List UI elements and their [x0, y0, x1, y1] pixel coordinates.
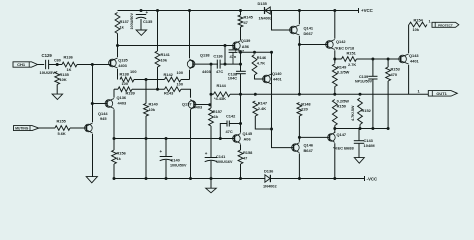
- resistor R136: [62, 62, 77, 67]
- output connector PROTECT: [432, 22, 459, 27]
- svg-text:C136: C136: [213, 54, 223, 59]
- capacitor C137: [229, 49, 238, 51]
- wire bottom rail right: [269, 178, 364, 180]
- wire Q137 base: [194, 104, 211, 106]
- svg-text:1N4002: 1N4002: [259, 16, 273, 21]
- wire R148 bottom: [298, 116, 300, 137]
- node out rail 299: [298, 93, 301, 96]
- svg-text:C135: C135: [143, 19, 153, 24]
- wire Q143 emitter down: [408, 65, 410, 95]
- wire input to C129: [38, 64, 45, 66]
- resistor R147: [253, 101, 258, 116]
- wire C141 bottom: [210, 161, 212, 188]
- node out rail fb: [210, 93, 213, 96]
- wire R143 to Q137 emitter: [181, 89, 191, 98]
- node Q147 base R148: [298, 136, 301, 139]
- wire R146 bottom: [255, 75, 265, 79]
- transistor Q147: [329, 134, 331, 141]
- wire to Q136 base: [92, 103, 107, 105]
- resistor R156: [112, 150, 117, 164]
- wire output rail: [211, 93, 214, 95]
- svg-text:R152: R152: [362, 108, 372, 113]
- wire Q137 collector down: [190, 110, 192, 179]
- svg-text:R136: R136: [64, 54, 74, 59]
- svg-text:5.6K: 5.6K: [58, 131, 66, 136]
- resistor R138: [120, 77, 134, 82]
- wire output rail right: [230, 93, 428, 95]
- svg-text:C129: C129: [42, 53, 53, 58]
- svg-text:PROTECT: PROTECT: [438, 23, 453, 27]
- wire Q147 base: [299, 136, 329, 138]
- transistor Q135: [110, 60, 112, 67]
- svg-text:Q135: Q135: [118, 58, 128, 63]
- capacitor C139: [368, 75, 377, 77]
- node mid rail R152: [359, 127, 362, 130]
- node top rail Q142: [333, 9, 336, 12]
- wire C142 left: [220, 124, 227, 139]
- svg-text:10U/25V: 10U/25V: [40, 70, 56, 75]
- resistor R158: [238, 150, 243, 164]
- svg-text:47: 47: [244, 20, 248, 25]
- wire R142 to Q138 collector: [181, 79, 190, 81]
- wire R156 top: [113, 139, 115, 151]
- node fb rail 166: [165, 137, 168, 140]
- node 240 rail: [239, 93, 242, 96]
- wire Q142 collector: [334, 11, 336, 39]
- svg-text:R154: R154: [414, 18, 424, 23]
- wire R151 left: [335, 58, 342, 60]
- svg-text:R144: R144: [217, 83, 227, 88]
- wire R155 to Q144 base: [70, 127, 87, 129]
- resistor R142: [165, 77, 182, 82]
- node fb rail C142: [219, 137, 222, 140]
- svg-text:4403: 4403: [118, 63, 127, 68]
- wire mid rail: [335, 128, 388, 130]
- diode D135: [265, 7, 270, 14]
- transistor Q141: [291, 27, 293, 34]
- node R151 tee: [333, 58, 336, 61]
- resistor R137: [115, 13, 120, 34]
- transistor Q136: [106, 100, 108, 107]
- svg-text:4403: 4403: [194, 104, 203, 109]
- node bot rail C140: [165, 177, 168, 180]
- svg-text:Q145: Q145: [243, 131, 253, 136]
- svg-text:OUT1: OUT1: [436, 91, 447, 96]
- node C136 left: [210, 63, 213, 66]
- svg-text:10k: 10k: [413, 27, 420, 32]
- resistor R154: [409, 22, 427, 27]
- node R146 top: [253, 51, 256, 54]
- wire bias row: [241, 51, 272, 53]
- power +VCC: [358, 8, 360, 13]
- wire Q138 collector down: [189, 70, 191, 80]
- svg-text:Q141: Q141: [304, 26, 314, 31]
- wire Q138 base: [193, 63, 218, 65]
- wire C139 bottom: [372, 79, 374, 129]
- wire C140 top: [165, 139, 167, 157]
- node fb Q137 base: [208, 103, 211, 106]
- resistor R140: [144, 104, 149, 117]
- svg-text:R138: R138: [120, 71, 130, 76]
- svg-text:10k: 10k: [149, 107, 156, 112]
- node col 271 52.3: [270, 51, 273, 54]
- svg-text:R153: R153: [391, 67, 401, 72]
- svg-text:NP1U/50V: NP1U/50V: [355, 80, 373, 84]
- svg-text:4.7K: 4.7K: [257, 61, 265, 66]
- wire Q136 collector down: [113, 109, 115, 138]
- svg-text:100: 100: [130, 69, 137, 74]
- resistor R143: [165, 87, 182, 92]
- transistor Q145: [234, 135, 236, 142]
- wire R150 bottom: [334, 126, 336, 134]
- wire C136 right: [220, 63, 240, 65]
- ground C135: [136, 30, 147, 35]
- wire feedback column upper: [210, 64, 212, 108]
- svg-text:Q137: Q137: [182, 101, 192, 106]
- svg-text:+: +: [146, 10, 149, 15]
- node 240 52.3: [239, 51, 242, 54]
- svg-text:-VCC: -VCC: [367, 176, 379, 181]
- transistor Q137: [193, 101, 195, 108]
- svg-text:Q143: Q143: [409, 53, 419, 58]
- wire C135 to ground: [140, 19, 142, 30]
- wire emitter rail: [118, 45, 235, 47]
- ground input: [52, 94, 63, 99]
- transistor Q142: [327, 41, 329, 48]
- wire bottom rail: [114, 178, 265, 180]
- ground C143: [354, 158, 364, 164]
- svg-text:104C: 104C: [228, 75, 237, 80]
- transistor Q139: [234, 42, 236, 49]
- transistor Q140: [264, 76, 266, 83]
- node input A: [91, 63, 94, 66]
- wire Q139 emitter down: [240, 51, 242, 72]
- input connector MUTING: [14, 126, 39, 131]
- svg-text:100U/50V: 100U/50V: [170, 163, 187, 167]
- svg-text:B647: B647: [304, 148, 313, 153]
- svg-text:Q142: Q142: [336, 39, 346, 44]
- svg-text:100U/50V: 100U/50V: [130, 13, 134, 30]
- resistor R145: [238, 15, 243, 27]
- wire R138 to node: [134, 79, 165, 81]
- resistor R141: [155, 51, 160, 67]
- ground Q144: [86, 177, 97, 183]
- wire C140 bottom: [165, 160, 167, 179]
- svg-text:104/M: 104/M: [364, 143, 376, 148]
- wire R141 bottom: [157, 67, 159, 89]
- wire R140 top: [145, 80, 147, 104]
- wire R145 top: [240, 11, 242, 16]
- svg-text:100U/16V: 100U/16V: [216, 160, 233, 164]
- node C139 top: [371, 58, 374, 61]
- wire main column lower: [272, 52, 294, 147]
- wire Q141 emitter down: [298, 36, 300, 95]
- svg-text:R137: R137: [120, 19, 129, 24]
- svg-text:+: +: [205, 151, 208, 156]
- wire Q146 emitter down: [298, 153, 300, 178]
- svg-text:4403: 4403: [202, 69, 211, 74]
- capacitor C135: [136, 14, 146, 16]
- wire Q143 collector up: [408, 25, 410, 54]
- node top rail R145: [239, 9, 242, 12]
- node R138 R140 R142: [145, 78, 148, 81]
- svg-text:R149: R149: [337, 64, 347, 69]
- node top rail R141: [156, 9, 159, 12]
- svg-text:R158: R158: [243, 150, 253, 155]
- node top rail Q138: [188, 9, 191, 12]
- node bot rail 334: [333, 177, 336, 180]
- svg-text:R143: R143: [164, 91, 174, 96]
- node out rail 334: [333, 93, 336, 96]
- svg-text:D135: D135: [258, 1, 268, 6]
- wire feedback column lower: [210, 126, 212, 157]
- wire Q144 emitter down: [92, 134, 94, 177]
- resistor R157: [209, 108, 214, 126]
- svg-text:100: 100: [177, 82, 184, 87]
- capacitor C141: [205, 157, 218, 159]
- wire muting to R155: [39, 127, 55, 129]
- svg-text:*4.43K: *4.43K: [214, 96, 226, 101]
- svg-text:Q140: Q140: [272, 71, 282, 76]
- node fb rail left: [113, 137, 116, 140]
- svg-text:+: +: [160, 149, 163, 154]
- svg-text:Q138: Q138: [200, 53, 210, 58]
- wire Q138 emitter up: [189, 11, 191, 59]
- wire R139 to node: [132, 88, 165, 90]
- svg-text:47C: 47C: [216, 69, 223, 74]
- svg-text:R151: R151: [347, 51, 357, 56]
- node input divider: [56, 63, 59, 66]
- wire R147 bottom: [255, 116, 271, 129]
- svg-text:4403: 4403: [118, 101, 127, 106]
- resistor R151: [342, 57, 357, 62]
- capacitor C138: [236, 70, 246, 72]
- wire R151 to Q143 base: [357, 58, 401, 60]
- wire R153 bottom: [387, 81, 389, 129]
- svg-text:1N4002: 1N4002: [263, 183, 277, 188]
- svg-text:R156: R156: [117, 151, 127, 156]
- capacitor C140: [160, 156, 173, 158]
- svg-text:945: 945: [100, 116, 107, 121]
- node bot rail left end: [113, 177, 116, 180]
- wire R136 to input node: [77, 64, 111, 66]
- svg-text:*KEC B688: *KEC B688: [333, 146, 354, 151]
- capacitor C137 stubs: [232, 46, 234, 50]
- wire R153 top: [387, 59, 389, 67]
- node R140 bottom rail: [145, 177, 148, 180]
- node col 129: [270, 128, 273, 131]
- svg-text:4401: 4401: [410, 59, 419, 64]
- node Q137col bottom rail: [189, 177, 192, 180]
- resistor R155: [55, 126, 70, 131]
- node bot rail 211: [210, 177, 213, 180]
- wire R152 bottom: [359, 125, 361, 129]
- resistor R148: [297, 103, 302, 117]
- transistor Q138: [192, 61, 194, 68]
- transistor Q146: [293, 144, 295, 151]
- capacitor C143: [354, 140, 364, 142]
- node mid rail C139: [371, 127, 374, 130]
- wire to Q142 base: [299, 44, 327, 46]
- wire +VCC top rail: [118, 10, 359, 12]
- svg-text:Q146: Q146: [304, 143, 314, 148]
- svg-text:470: 470: [391, 72, 398, 77]
- wire C129 to node: [49, 64, 62, 66]
- svg-text:4401: 4401: [273, 77, 282, 82]
- resistor R146: [252, 55, 257, 76]
- wire R156 bottom: [113, 164, 115, 179]
- svg-text:MUTING: MUTING: [15, 127, 28, 131]
- svg-text:R145: R145: [244, 15, 254, 20]
- svg-text:A06: A06: [244, 136, 252, 141]
- svg-text:C140: C140: [171, 157, 180, 162]
- node erail 225: [224, 44, 227, 47]
- input connector CH1: [13, 62, 38, 67]
- wire col 225: [224, 46, 226, 65]
- wire Q135 collector down: [117, 69, 119, 80]
- diode D136: [265, 175, 270, 182]
- wire Q135 emitter up: [117, 46, 119, 58]
- wire main column: [272, 11, 292, 31]
- wire Q139 emitter down b: [240, 74, 242, 95]
- wire R140 bottom: [145, 116, 147, 179]
- svg-text:R140: R140: [149, 102, 158, 107]
- transistor Q144: [86, 125, 88, 132]
- node bot rail 299: [298, 177, 301, 180]
- capacitor C142: [226, 121, 228, 127]
- svg-text:R142: R142: [164, 72, 174, 77]
- svg-text:4.7K/.5W: 4.7K/.5W: [351, 105, 355, 121]
- svg-text:47: 47: [243, 156, 247, 161]
- svg-text:C80: C80: [54, 58, 61, 62]
- svg-text:47C: 47C: [226, 129, 233, 134]
- wire Q136 emitter up: [113, 89, 115, 98]
- wire R158 bottom: [240, 164, 242, 179]
- svg-text:100: 100: [177, 70, 184, 75]
- wire R137 bottom: [117, 34, 119, 46]
- resistor R139: [118, 87, 132, 92]
- resistor R135: [55, 72, 60, 85]
- svg-text:D136: D136: [264, 169, 274, 174]
- capacitor C136: [216, 60, 218, 69]
- wire Q145 collector: [240, 94, 242, 132]
- svg-text:10k: 10k: [161, 58, 168, 63]
- node out rail R147: [254, 93, 257, 96]
- transistor Q143: [400, 56, 402, 63]
- svg-text:2.7K: 2.7K: [348, 62, 356, 67]
- svg-text:2.4K: 2.4K: [258, 106, 266, 111]
- wire Q144 collector to input node: [92, 65, 94, 123]
- wire Q141 collector: [298, 11, 300, 25]
- node R153 top: [387, 58, 390, 61]
- node R140 fb rail: [145, 137, 148, 140]
- node mid rail R153: [387, 127, 390, 130]
- svg-text:CH1: CH1: [17, 62, 26, 67]
- power -VCC: [364, 176, 366, 181]
- svg-text:220: 220: [301, 106, 308, 111]
- node top rail C135: [140, 9, 143, 12]
- svg-text:1: 1: [429, 20, 431, 24]
- ground main: [206, 188, 217, 193]
- svg-text:R150: R150: [337, 103, 346, 108]
- svg-text:R155: R155: [57, 118, 67, 123]
- svg-text:C141: C141: [216, 154, 226, 159]
- svg-text:A56: A56: [242, 44, 250, 49]
- wire feedback rail: [114, 138, 235, 140]
- resistor R152: [358, 98, 363, 125]
- node Q145 collector: [239, 122, 242, 125]
- svg-text:0.2/5W: 0.2/5W: [337, 70, 350, 75]
- wire R139 left: [114, 88, 118, 90]
- wire Q145 emitter down: [240, 144, 242, 150]
- node out rail R152: [359, 93, 362, 96]
- node main col 64: [239, 63, 242, 66]
- node C136 right: [224, 63, 227, 66]
- node top rail Q141: [298, 9, 301, 12]
- svg-text:R141: R141: [161, 52, 171, 57]
- svg-text:+VCC: +VCC: [361, 8, 374, 13]
- node mid rail 334: [333, 127, 336, 130]
- wire Q146 collector up: [298, 137, 300, 141]
- wire C143 bottom: [358, 143, 360, 157]
- wire Q142 emitter down: [334, 50, 336, 63]
- node bot rail R158: [239, 177, 242, 180]
- svg-text:Q147: Q147: [337, 132, 347, 137]
- resistor R153: [386, 67, 391, 81]
- svg-text:C142: C142: [226, 114, 236, 119]
- svg-text:C139: C139: [359, 74, 369, 79]
- wire C143 top: [358, 129, 360, 141]
- wire R141 top: [157, 11, 159, 52]
- svg-text:R157: R157: [213, 109, 222, 114]
- resistor R149: [332, 64, 337, 87]
- wire R157 stub: [210, 105, 212, 109]
- node R139 R141 R143: [156, 88, 159, 91]
- wire C142 right: [229, 123, 240, 125]
- node Q136 base tap: [91, 102, 94, 105]
- wire R149 bottom: [334, 87, 336, 95]
- node Q142 base: [298, 43, 301, 46]
- wire R145 to Q139: [240, 27, 242, 40]
- svg-text:D667: D667: [304, 31, 313, 36]
- wire R135 to ground: [56, 85, 58, 95]
- svg-text:R139: R139: [126, 90, 136, 95]
- node emitter rail left: [116, 44, 119, 47]
- wire C139 top: [372, 59, 374, 76]
- svg-text:R146: R146: [257, 55, 267, 60]
- svg-text:R147: R147: [258, 101, 267, 106]
- resistor R150: [332, 100, 337, 126]
- output connector OUT1: [428, 91, 457, 97]
- svg-text:100: 100: [122, 81, 129, 86]
- wire Q147 emitter down: [334, 143, 336, 178]
- svg-text:10K: 10K: [60, 77, 67, 82]
- resistor R144: [214, 92, 231, 97]
- svg-text:Q136: Q136: [117, 95, 127, 100]
- capacitor C129: [45, 60, 47, 69]
- svg-text:Q139: Q139: [241, 38, 251, 43]
